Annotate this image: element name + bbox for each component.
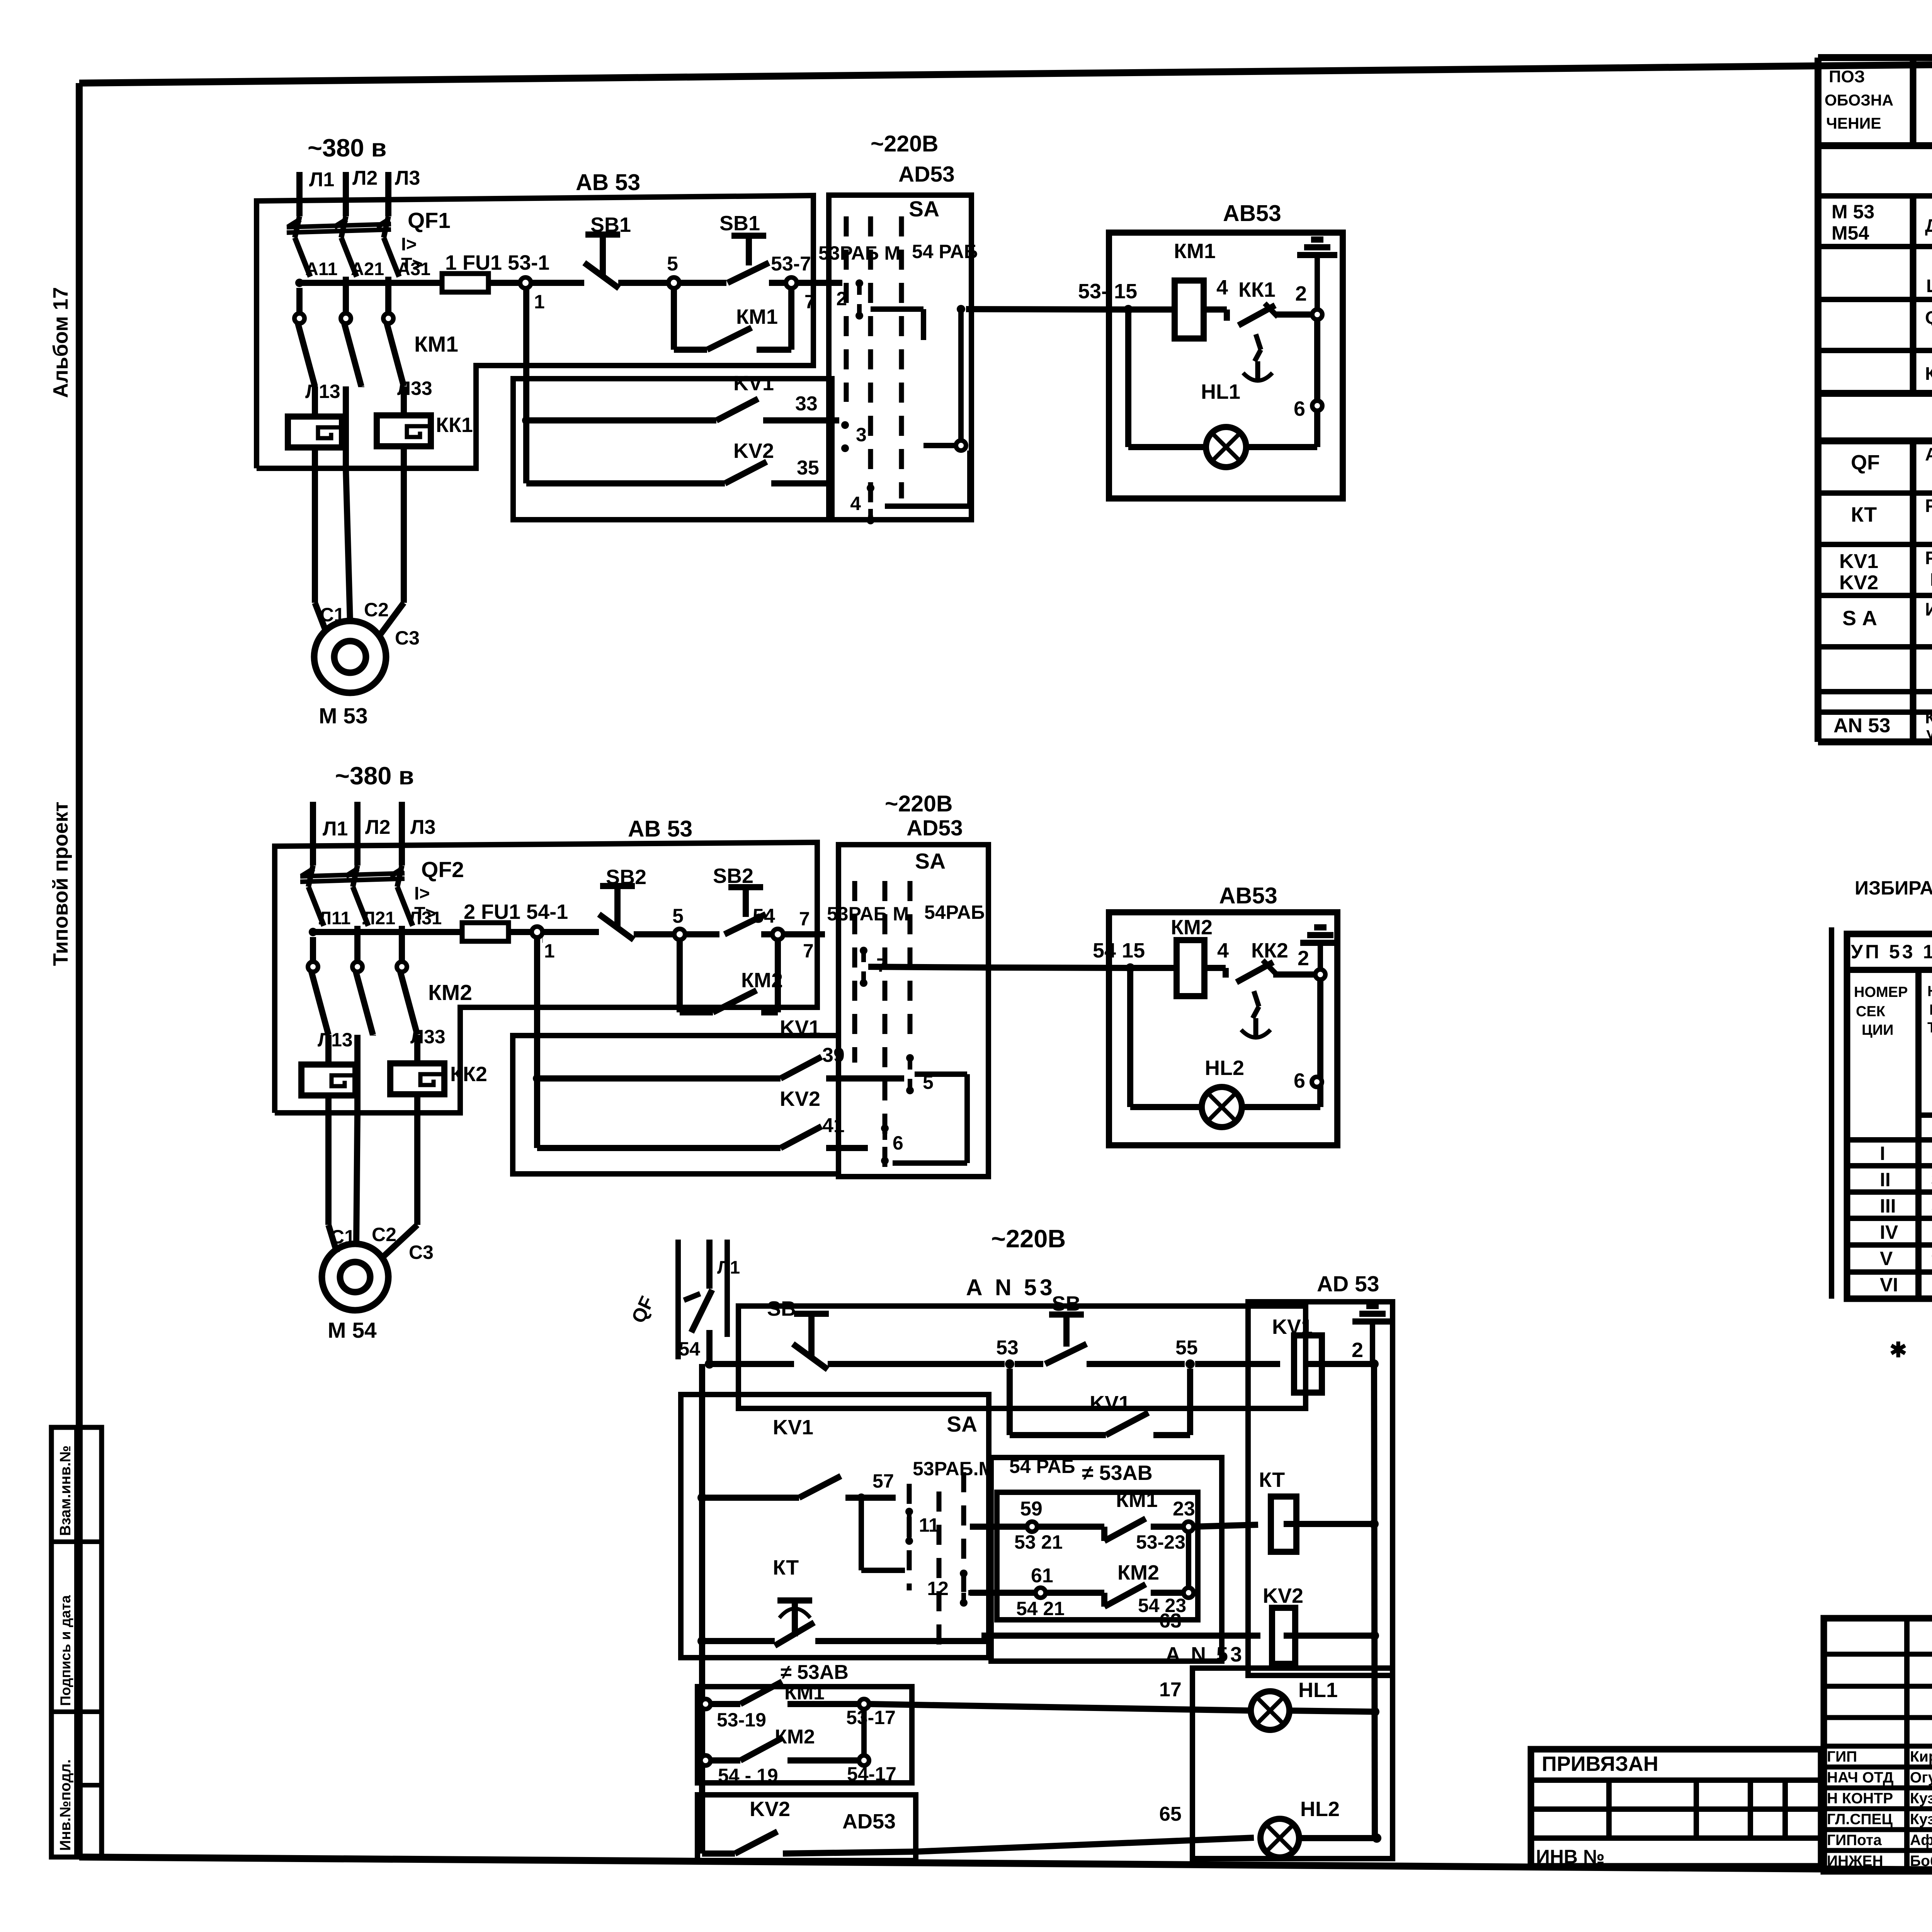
svg-text:ГИП: ГИП xyxy=(1827,1748,1857,1765)
wire main bus circuit 2 xyxy=(309,908,462,936)
indication box AB53 circuit 2 xyxy=(1109,883,1337,1145)
svg-text:HL2: HL2 xyxy=(1300,1798,1340,1821)
relay contact KV1 bypass xyxy=(1010,1369,1190,1435)
svg-text:AD53: AD53 xyxy=(898,162,955,187)
wire phase L3 circuit 2 xyxy=(402,802,435,866)
node 5 circuit 1 xyxy=(667,253,726,288)
svg-text:ПРИВЯЗАН: ПРИВЯЗАН xyxy=(1542,1752,1658,1776)
selector contact 12 bottom xyxy=(927,1570,997,1607)
timed contact KT bottom xyxy=(702,1556,989,1646)
parts table row SA selector xyxy=(1842,599,1932,641)
svg-text:I>: I> xyxy=(414,883,430,903)
circuit breaker QF bottom xyxy=(627,1240,740,1364)
svg-text:Л13: Л13 xyxy=(305,381,340,402)
svg-text:VI: VI xyxy=(1880,1274,1898,1296)
SA selector table grid xyxy=(1832,927,1932,1299)
svg-text:✱: ✱ xyxy=(1889,1338,1907,1362)
svg-text:53РАБ.М: 53РАБ.М xyxy=(913,1458,995,1480)
lamp box AN53 bottom right xyxy=(1192,1668,1393,1859)
svg-text:Двигатель 4А63А2,~380В, 0 37кВ: Двигатель 4А63А2,~380В, 0 37кВт, 0 93А xyxy=(1925,215,1932,236)
svg-text:54: 54 xyxy=(679,1338,700,1360)
svg-text:53 21: 53 21 xyxy=(1014,1531,1063,1553)
svg-text:АВ 53: АВ 53 xyxy=(628,816,692,842)
svg-text:КМ1: КМ1 xyxy=(1116,1488,1158,1512)
svg-text:Кузнецов: Кузнецов xyxy=(1910,1811,1932,1828)
svg-text:HL1: HL1 xyxy=(1298,1679,1338,1702)
ground symbol AB53 circuit 2 xyxy=(1318,943,1323,975)
svg-text:~220В: ~220В xyxy=(991,1225,1066,1253)
circuit breaker QF1 xyxy=(287,208,451,277)
motor M54 xyxy=(322,1244,388,1343)
svg-text:QF2: QF2 xyxy=(421,857,464,882)
selector contact 7 circuit 2 xyxy=(860,947,988,987)
selector contact 5 circuit 2 xyxy=(906,1054,934,1094)
svg-text:Реле времени РВП72 3221 00У3: Реле времени РВП72 3221 00У3 xyxy=(1925,495,1932,516)
svg-text:2: 2 xyxy=(1295,282,1307,305)
svg-text:54-17: 54-17 xyxy=(847,1763,896,1785)
svg-text:КТ: КТ xyxy=(1851,503,1877,526)
svg-text:7: 7 xyxy=(799,908,810,930)
svg-text:Л11: Л11 xyxy=(319,908,351,928)
svg-text:2: 2 xyxy=(836,288,847,310)
svg-text:65: 65 xyxy=(1159,1803,1182,1825)
svg-text:КК1: КК1 xyxy=(436,413,473,437)
svg-text:7: 7 xyxy=(804,291,815,313)
signal lamp HL2 bottom xyxy=(1260,1798,1381,1857)
node 2 bottom circuit xyxy=(1352,1338,1379,1369)
svg-text:KV2: KV2 xyxy=(780,1087,820,1111)
svg-text:~380 в: ~380 в xyxy=(335,762,414,790)
svg-text:QF: QF xyxy=(1851,451,1880,474)
wire motor leads circuit 2 xyxy=(328,1113,434,1263)
svg-text:SB1: SB1 xyxy=(719,212,760,235)
title block staffing table xyxy=(1824,1618,1932,1871)
wire phase L1 circuit 2 xyxy=(313,802,348,866)
wire 53AB outer box right edge xyxy=(1219,1458,1225,1661)
svg-text:А N 53: А N 53 xyxy=(966,1275,1056,1300)
svg-text:А21: А21 xyxy=(351,259,384,279)
svg-text:33: 33 xyxy=(795,393,818,415)
svg-text:HL1: HL1 xyxy=(1201,380,1240,403)
svg-text:Бобылькова: Бобылькова xyxy=(1910,1853,1932,1869)
svg-text:SA: SA xyxy=(947,1412,977,1437)
svg-text:4: 4 xyxy=(1217,939,1229,962)
wire main bus circuit 1 xyxy=(295,259,442,287)
parts table row QF1 QF2 breaker xyxy=(1925,307,1932,349)
pushbutton station box AN53 xyxy=(738,1275,1306,1408)
wire phase L1 circuit 1 xyxy=(299,168,334,216)
svg-text:РПУ2 - 364003У3 , ~220В: РПУ2 - 364003У3 , ~220В xyxy=(1930,569,1932,590)
svg-text:КК2: КК2 xyxy=(1251,939,1288,962)
svg-text:А N 53: А N 53 xyxy=(1165,1643,1244,1666)
svg-text:53РАБ М: 53РАБ М xyxy=(827,903,909,925)
svg-text:SA: SA xyxy=(915,849,946,874)
node 53 bottom circuit xyxy=(996,1337,1043,1369)
svg-text:КМ1: КМ1 xyxy=(1174,240,1216,263)
svg-text:6: 6 xyxy=(1294,397,1305,420)
svg-text:Инв.№подл.: Инв.№подл. xyxy=(57,1759,74,1851)
selector contact 11 bottom xyxy=(905,1508,939,1545)
wire selector internals circuit 1 xyxy=(871,305,970,506)
ground symbol bottom circuit xyxy=(1370,1321,1375,1364)
enclosure 53AB outer box bottom xyxy=(991,1458,1222,1661)
svg-text:KV2: KV2 xyxy=(733,439,774,463)
svg-text:≠ 53АВ: ≠ 53АВ xyxy=(1082,1461,1153,1485)
svg-text:М54: М54 xyxy=(1832,222,1869,244)
title block привязан box xyxy=(1531,1749,1821,1867)
relay contact KV1 circuit 1 xyxy=(522,372,839,425)
svg-text:7: 7 xyxy=(803,940,814,962)
svg-text:54РАБ: 54РАБ xyxy=(924,901,985,923)
svg-text:KV2: KV2 xyxy=(750,1798,790,1821)
node 54 bottom circuit xyxy=(679,1338,714,1369)
SA table row labels and contact numbers xyxy=(1880,1143,1932,1296)
svg-text:ИНЖЕН: ИНЖЕН xyxy=(1827,1853,1883,1869)
relay contact KV1 circuit 2 xyxy=(533,1016,904,1083)
svg-text:КМ2: КМ2 xyxy=(1171,916,1213,939)
svg-text:Кузнецов: Кузнецов xyxy=(1910,1790,1932,1807)
wire KV branch drop circuit 2 xyxy=(534,937,540,1148)
svg-text:53-7: 53-7 xyxy=(771,253,811,275)
svg-text:С2: С2 xyxy=(372,1224,396,1245)
svg-text:КМ2: КМ2 xyxy=(741,969,783,992)
node 6 circuit 1 AB53 xyxy=(1294,397,1322,420)
svg-text:SB: SB xyxy=(767,1297,796,1320)
svg-text:AN 53: AN 53 xyxy=(1833,714,1890,737)
fuse FU1 circuit 2 xyxy=(462,900,568,941)
relay contact KV1 bottom row xyxy=(702,1416,896,1498)
svg-text:54 - 19: 54 - 19 xyxy=(718,1765,778,1786)
enclosure AB53 circuit 1 xyxy=(257,170,813,468)
relay contact KV2 circuit 2 xyxy=(537,1087,868,1148)
contactor KM1 auxiliary self-hold contact xyxy=(674,288,791,350)
thermal contact KK1 in AB53 xyxy=(1238,278,1317,381)
svg-text:А11: А11 xyxy=(305,259,338,279)
fuse FU1 circuit 1 xyxy=(442,251,549,292)
svg-text:KV1: KV1 xyxy=(733,372,774,395)
node 53-7 circuit 1 xyxy=(771,253,842,313)
selector SA section dashes circuit 2 xyxy=(827,881,985,1174)
svg-text:КТ: КТ xyxy=(1259,1468,1285,1492)
svg-text:Л1: Л1 xyxy=(309,168,334,191)
svg-text:2: 2 xyxy=(1298,947,1309,970)
svg-text:Л2: Л2 xyxy=(352,167,378,189)
selector box AD53 circuit 2 xyxy=(838,791,988,1177)
svg-text:AD53: AD53 xyxy=(842,1810,896,1833)
wire left conductor bottom circuit xyxy=(697,1364,707,1854)
selector contact 6 circuit 2 xyxy=(881,1124,903,1165)
push button SB1 stop xyxy=(584,213,669,288)
thermal relay KK2 heater elements xyxy=(301,1035,487,1113)
svg-text:Подпись и дата: Подпись и дата xyxy=(58,1595,73,1706)
svg-text:53-23: 53-23 xyxy=(1136,1531,1185,1553)
svg-text:Л2: Л2 xyxy=(365,816,390,838)
svg-text:Афонина: Афонина xyxy=(1910,1832,1932,1849)
svg-text:А31: А31 xyxy=(397,259,430,279)
svg-text:ПОЗ: ПОЗ xyxy=(1829,67,1865,86)
svg-text:II: II xyxy=(1880,1169,1891,1190)
svg-text:I>: I> xyxy=(401,234,417,254)
svg-text:Автоматический выключатель: Автоматический выключатель xyxy=(1925,444,1932,464)
svg-text:Взам.инв.№: Взам.инв.№ xyxy=(57,1446,74,1536)
svg-text:Л21: Л21 xyxy=(362,908,395,928)
node 54-7 circuit 2 xyxy=(753,905,825,962)
signal lamp HL2 in AB53 xyxy=(1130,968,1320,1127)
svg-text:Л3: Л3 xyxy=(395,167,420,189)
left margin stamp table xyxy=(51,1427,102,1857)
svg-text:2 FU1 54-1: 2 FU1 54-1 xyxy=(464,900,568,923)
svg-text:6: 6 xyxy=(893,1132,903,1154)
auxiliary contact KM2 indication xyxy=(701,1709,896,1786)
svg-text:КМ1: КМ1 xyxy=(736,305,778,328)
svg-text:QF1: QF1 xyxy=(408,208,451,233)
svg-text:М 53: М 53 xyxy=(319,704,368,728)
svg-text:54 15: 54 15 xyxy=(1093,939,1145,962)
node 55 bottom circuit xyxy=(1175,1337,1280,1369)
push button SB start bottom xyxy=(1045,1292,1185,1364)
svg-text:KV2: KV2 xyxy=(1839,571,1878,594)
indication box AB53 circuit 1 xyxy=(1109,201,1343,498)
circuit breaker QF2 xyxy=(300,857,464,926)
contactor coil KM2 xyxy=(1130,916,1229,996)
wire selector internals circuit 2 xyxy=(893,1074,967,1163)
wire AD53 to AB53 lamp box circuit 2 xyxy=(988,939,1145,973)
svg-text:НОМЕР: НОМЕР xyxy=(1927,983,1932,1000)
selector SA dashes bottom xyxy=(909,1412,1075,1648)
auxiliary contact KM1 indication xyxy=(701,1679,1252,1731)
parts table row QF breaker A63M xyxy=(1851,444,1932,486)
signal lamp HL1 in AB53 xyxy=(1128,310,1317,467)
auxiliary contact KM2 row 61 xyxy=(970,1532,1194,1619)
svg-text:~380 в: ~380 в xyxy=(308,134,386,162)
svg-text:54 21: 54 21 xyxy=(1016,1598,1065,1619)
node ~380V supply circuit 1 xyxy=(308,134,386,162)
enclosure KV sub-box circuit 1 xyxy=(513,379,832,520)
svg-text:КМ1: КМ1 xyxy=(414,332,458,357)
wire phase L3 circuit 1 xyxy=(388,167,420,216)
svg-text:С3: С3 xyxy=(409,1242,434,1263)
indication contact box KM bottom left xyxy=(697,1661,912,1783)
svg-text:59: 59 xyxy=(1020,1498,1043,1520)
svg-text:5: 5 xyxy=(672,905,684,927)
push button SB stop bottom xyxy=(767,1297,1005,1369)
indication contact box KV2 bottom left xyxy=(697,1795,916,1861)
svg-text:IV: IV xyxy=(1880,1221,1898,1243)
svg-text:ТАКТА: ТАКТА xyxy=(1927,1020,1932,1036)
svg-text:НАЧ ОТД: НАЧ ОТД xyxy=(1827,1769,1894,1786)
contactor coil KM1 xyxy=(1128,240,1228,338)
svg-text:Реле промежуточное: Реле промежуточное xyxy=(1925,548,1932,568)
svg-text:Альбом 17: Альбом 17 xyxy=(49,287,72,398)
parts table row control box xyxy=(1926,255,1932,296)
svg-text:53РАБ М: 53РАБ М xyxy=(818,242,900,264)
enclosure AB53 circuit 2 xyxy=(275,816,817,1113)
svg-text:HL2: HL2 xyxy=(1205,1056,1244,1080)
svg-text:SA: SA xyxy=(909,197,939,221)
svg-text:М 54: М 54 xyxy=(328,1318,377,1343)
svg-text:КМ2: КМ2 xyxy=(428,980,472,1005)
svg-text:ЧЕНИЕ: ЧЕНИЕ xyxy=(1826,114,1881,132)
svg-text:С3: С3 xyxy=(395,627,420,649)
svg-text:AD53: AD53 xyxy=(906,816,963,840)
SA table header text xyxy=(1851,941,1932,1136)
svg-text:53-17: 53-17 xyxy=(846,1707,896,1728)
wire KV branch drop circuit 1 xyxy=(523,288,529,483)
svg-text:КК1, КК2- тепловое реле: КК1, КК2- тепловое реле 1А xyxy=(1925,363,1932,384)
wire 220V rail into AN53 xyxy=(709,1361,794,1367)
node 2 circuit 1 AB53 xyxy=(1295,282,1322,447)
svg-text:23: 23 xyxy=(1173,1498,1195,1520)
selector SA section dashes circuit 1 xyxy=(818,216,978,520)
svg-text:AD 53: AD 53 xyxy=(1317,1272,1379,1296)
svg-text:6: 6 xyxy=(1294,1069,1305,1092)
selector box AD53 circuit 1 xyxy=(829,131,971,520)
node 6 circuit 2 AB53 xyxy=(1294,1069,1322,1092)
svg-text:ИНВ №: ИНВ № xyxy=(1536,1846,1605,1867)
svg-text:1: 1 xyxy=(544,940,555,962)
svg-text:ИЗБИРАТЕЛЬ: ИЗБИРАТЕЛЬ xyxy=(1855,877,1932,899)
auxiliary contact box 53AB xyxy=(997,1492,1198,1620)
ground symbol AB53 circuit 1 xyxy=(1297,240,1337,315)
thermal relay KK1 heater elements xyxy=(288,386,473,468)
svg-text:V: V xyxy=(1880,1248,1893,1269)
svg-text:54 РАБ: 54 РАБ xyxy=(912,241,978,262)
enclosure SA region box bottom xyxy=(681,1395,989,1658)
node 57 bottom xyxy=(857,1470,905,1570)
thermal contact KK2 in AB53 xyxy=(1236,939,1320,1037)
svg-text:Кирсанов: Кирсанов xyxy=(1910,1748,1932,1765)
svg-text:QF1,QF2 АВТОМАТИЧЕСКИЙ: QF1,QF2 АВТОМАТИЧЕСКИЙ xyxy=(1925,307,1932,328)
selector contact 3 circuit 1 xyxy=(841,421,867,452)
enclosure KV sub-box circuit 2 xyxy=(513,1036,838,1174)
relay contact KV2 indication xyxy=(702,1803,1254,1854)
svg-text:ГЛ.СПЕЦ: ГЛ.СПЕЦ xyxy=(1827,1811,1893,1828)
svg-text:АВ53: АВ53 xyxy=(1219,883,1277,908)
auxiliary contact KM1 row 59 xyxy=(970,1488,1194,1553)
relay coil KT xyxy=(1259,1468,1374,1552)
relay contact KV2 circuit 1 xyxy=(526,439,835,483)
relay coil KV1 xyxy=(1272,1315,1372,1393)
svg-text:управления ПКУ 15 19: управления ПКУ 15 19 141 40У3 xyxy=(1926,724,1932,742)
contactor KM2 main poles xyxy=(308,926,472,1065)
relay coil KV2 xyxy=(981,1584,1374,1664)
svg-text:АВ 53: АВ 53 xyxy=(576,170,640,195)
svg-text:ОБОЗНА: ОБОЗНА xyxy=(1825,91,1893,109)
svg-text:4: 4 xyxy=(850,493,861,514)
svg-text:1 FU1 53-1: 1 FU1 53-1 xyxy=(445,251,549,274)
wire phase L2 circuit 1 xyxy=(346,167,378,216)
SA table footnote star xyxy=(1889,1254,1932,1362)
node 2 circuit 2 AB53 xyxy=(1298,947,1325,1107)
selector contact 2 circuit 1 xyxy=(836,279,863,320)
svg-text:Л3: Л3 xyxy=(410,816,435,838)
svg-text:УП 53 13 Ø 150: УП 53 13 Ø 150 xyxy=(1851,941,1932,963)
svg-text:Типовой проект: Типовой проект xyxy=(49,802,72,966)
SA selector table title xyxy=(1855,854,1932,899)
svg-text:ГИПота: ГИПота xyxy=(1827,1832,1882,1849)
node 5 circuit 2 xyxy=(672,905,719,940)
svg-text:KV1: KV1 xyxy=(773,1416,813,1439)
svg-text:53-19: 53-19 xyxy=(717,1709,766,1731)
parts table row M53 M54 motor xyxy=(1832,201,1932,244)
push button SB2 start xyxy=(713,864,773,934)
svg-text:3: 3 xyxy=(856,424,867,446)
svg-text:41: 41 xyxy=(822,1114,845,1137)
wire KM1 row to KT coil xyxy=(1173,1498,1258,1527)
svg-text:Л1: Л1 xyxy=(323,818,348,840)
signal lamp HL1 bottom xyxy=(1251,1679,1377,1730)
svg-text:КМ2: КМ2 xyxy=(1117,1561,1159,1584)
svg-text:ЦИИ: ЦИИ xyxy=(1862,1022,1893,1038)
svg-text:12: 12 xyxy=(927,1578,949,1599)
svg-text:КТ: КТ xyxy=(773,1556,799,1579)
wire motor leads circuit 1 xyxy=(315,468,420,649)
contactor KM1 main poles xyxy=(294,277,458,417)
svg-text:4: 4 xyxy=(1216,276,1228,299)
svg-text:АВ53: АВ53 xyxy=(1223,201,1281,226)
motor M53 xyxy=(314,621,386,728)
svg-text:КМ1: КМ1 xyxy=(784,1682,825,1704)
svg-text:~220В: ~220В xyxy=(871,131,939,156)
svg-text:Л31: Л31 xyxy=(409,908,442,928)
svg-text:1: 1 xyxy=(534,291,545,313)
svg-text:~220В: ~220В xyxy=(885,791,953,816)
wire AD53 to AB53 lamp box circuit 1 xyxy=(966,280,1137,314)
svg-text:Л1: Л1 xyxy=(717,1257,740,1277)
svg-text:КОН: КОН xyxy=(1929,1002,1932,1018)
svg-text:III: III xyxy=(1880,1195,1896,1217)
svg-text:55: 55 xyxy=(1175,1337,1198,1359)
svg-text:КК1: КК1 xyxy=(1238,278,1276,301)
svg-text:Избиратель управления: Избиратель управления xyxy=(1925,599,1932,619)
parts list table grid xyxy=(1818,58,1932,742)
svg-text:57: 57 xyxy=(872,1470,894,1492)
svg-text:НОМЕР: НОМЕР xyxy=(1854,984,1908,1000)
svg-text:5: 5 xyxy=(667,253,678,275)
parts table row KT time relay xyxy=(1851,495,1932,538)
parts table row KV1 KV2 relays xyxy=(1839,548,1932,594)
selector box AD53 bottom xyxy=(1248,1272,1393,1675)
svg-text:S А: S А xyxy=(1842,607,1877,630)
wire right conductor bottom circuit xyxy=(1369,1364,1379,1838)
svg-text:Огурцов: Огурцов xyxy=(1910,1769,1932,1786)
svg-text:KV1: KV1 xyxy=(1090,1392,1130,1415)
svg-text:17: 17 xyxy=(1159,1679,1182,1701)
parts table header text xyxy=(1825,67,1932,132)
node 54-1 circuit 2 xyxy=(532,927,599,962)
svg-text:КК2: КК2 xyxy=(450,1063,487,1086)
svg-text:2: 2 xyxy=(1352,1338,1363,1362)
svg-text:11: 11 xyxy=(919,1514,939,1536)
push button SB1 start xyxy=(719,212,786,283)
svg-text:KV1: KV1 xyxy=(1839,550,1878,573)
svg-text:СЕК: СЕК xyxy=(1856,1003,1886,1020)
svg-text:39: 39 xyxy=(822,1044,845,1066)
svg-text:Л13: Л13 xyxy=(318,1029,353,1051)
svg-text:61: 61 xyxy=(1031,1565,1053,1587)
svg-text:М 53: М 53 xyxy=(1832,201,1874,223)
node 53-1 circuit 1 xyxy=(520,277,584,313)
svg-text:I: I xyxy=(1880,1143,1885,1164)
contactor KM2 auxiliary self-hold contact xyxy=(680,940,783,1012)
svg-text:Цепи управления ~220В: Цепи управления ~220В xyxy=(1926,276,1932,296)
svg-text:53: 53 xyxy=(996,1337,1019,1359)
svg-text:Н КОНТР: Н КОНТР xyxy=(1827,1790,1893,1807)
selector contact 4 circuit 1 xyxy=(850,484,874,524)
svg-text:≠ 53АВ: ≠ 53АВ xyxy=(781,1661,849,1684)
wire phase L2 circuit 2 xyxy=(357,802,390,866)
svg-text:54: 54 xyxy=(753,905,775,927)
